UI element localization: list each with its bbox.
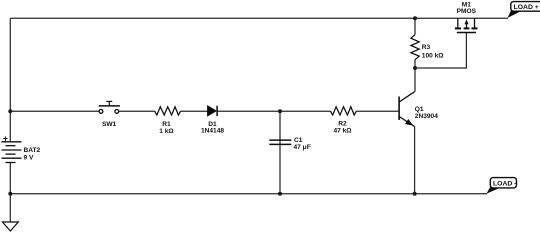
svg-text:Q1: Q1 xyxy=(415,106,424,113)
svg-text:SW1: SW1 xyxy=(102,121,117,128)
svg-text:BAT2: BAT2 xyxy=(24,147,41,154)
svg-text:PMOS: PMOS xyxy=(457,8,477,15)
svg-text:C1: C1 xyxy=(294,137,303,144)
svg-text:1 kΩ: 1 kΩ xyxy=(159,128,174,135)
svg-text:R2: R2 xyxy=(338,121,347,128)
svg-text:47 kΩ: 47 kΩ xyxy=(333,128,352,135)
svg-text:2N3904: 2N3904 xyxy=(415,113,438,120)
svg-text:9 V: 9 V xyxy=(24,155,34,162)
svg-text:R1: R1 xyxy=(162,121,171,128)
svg-text:100 kΩ: 100 kΩ xyxy=(422,52,445,59)
svg-text:LOAD -: LOAD - xyxy=(493,180,516,187)
svg-text:47 μF: 47 μF xyxy=(294,144,311,151)
svg-text:1N4148: 1N4148 xyxy=(201,128,224,135)
svg-text:R3: R3 xyxy=(422,44,431,51)
svg-text:LOAD +: LOAD + xyxy=(514,4,539,11)
